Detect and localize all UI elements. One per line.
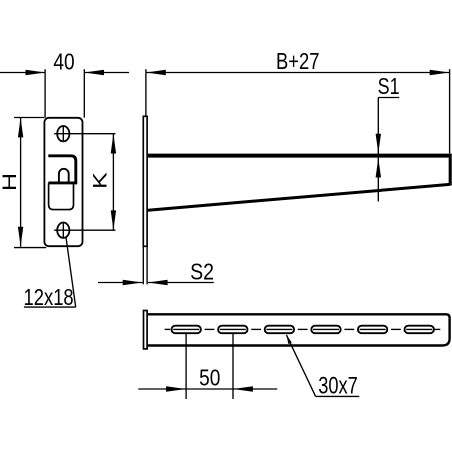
svg-text:K: K [90,172,111,189]
svg-text:H: H [0,173,20,191]
svg-text:40: 40 [53,50,74,75]
svg-text:30x7: 30x7 [318,372,358,399]
svg-text:S2: S2 [190,259,214,285]
svg-text:12x18: 12x18 [24,285,74,310]
svg-text:B+27: B+27 [276,49,319,74]
svg-text:S1: S1 [378,74,400,100]
svg-text:50: 50 [199,366,220,391]
